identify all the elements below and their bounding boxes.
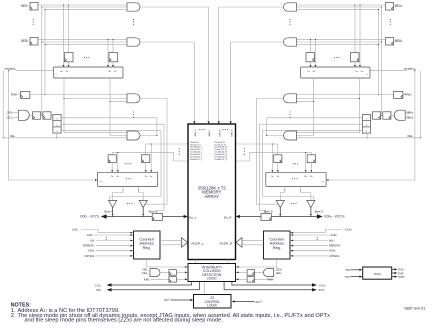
svg-text:CNTENR: CNTENR <box>329 254 340 258</box>
svg-text:CE0L: CE0L <box>142 268 148 271</box>
svg-text:a: a <box>300 189 302 191</box>
svg-text:an: an <box>322 181 324 183</box>
svg-text:CE0R: CE0R <box>276 268 283 271</box>
svg-text:A0R: A0R <box>329 239 334 243</box>
svg-text:CE1R: CE1R <box>407 116 414 120</box>
svg-text:CE1L: CE1L <box>142 272 148 275</box>
svg-text:Reg.: Reg. <box>143 245 151 250</box>
svg-text:CE1R: CE1R <box>276 272 283 275</box>
svg-text:REPEATR: REPEATR <box>329 244 342 248</box>
svg-text:TMS: TMS <box>398 271 404 275</box>
svg-text:DIN_R: DIN_R <box>224 216 232 220</box>
svg-text:ADDR_R: ADDR_R <box>219 242 232 246</box>
svg-text:A0L: A0L <box>90 239 95 243</box>
svg-text:BE0R: BE0R <box>395 4 403 8</box>
svg-text:CE1L: CE1L <box>7 116 13 120</box>
svg-text:I/O0R - I/O71R: I/O0R - I/O71R <box>324 215 345 219</box>
svg-text:INTL: INTL <box>96 288 102 292</box>
svg-text:TRST: TRST <box>398 275 405 279</box>
svg-text:OER: OER <box>407 134 413 138</box>
svg-text:Dout63-71_R: Dout63-71_R <box>215 158 228 161</box>
svg-text:6887 drw 01: 6887 drw 01 <box>405 306 426 310</box>
svg-text:LOGIC: LOGIC <box>207 276 218 280</box>
svg-text:BW0_R: BW0_R <box>219 129 221 136</box>
svg-text:b: b <box>138 189 139 191</box>
svg-text:a: a <box>122 189 124 191</box>
svg-text:BW8_R: BW8_R <box>231 129 233 136</box>
svg-text:ADSR: ADSR <box>329 249 337 253</box>
svg-text:ZZL(2): ZZL(2) <box>164 298 171 302</box>
svg-text:Dout63-71_L: Dout63-71_L <box>190 158 203 161</box>
svg-text:CLKR: CLKR <box>345 228 352 232</box>
svg-text:CNTENL: CNTENL <box>84 254 95 258</box>
svg-text:A16R: A16R <box>331 233 338 237</box>
svg-text:BE8L: BE8L <box>21 39 29 43</box>
svg-text:Reg.: Reg. <box>273 245 281 250</box>
svg-text:OEL: OEL <box>10 134 15 138</box>
svg-text:INTR: INTR <box>319 288 326 292</box>
svg-text:A16L: A16L <box>87 233 94 237</box>
svg-text:R/WR: R/WR <box>405 93 413 97</box>
svg-text:R/WR: R/WR <box>268 278 275 281</box>
svg-text:DIN_L: DIN_L <box>189 216 197 220</box>
svg-text:JTAG: JTAG <box>373 272 381 276</box>
svg-text:an: an <box>100 181 102 183</box>
svg-text:ADDR_L: ADDR_L <box>191 242 203 246</box>
svg-text:R/WL: R/WL <box>11 93 19 97</box>
svg-text:BW0_L: BW0_L <box>195 129 197 136</box>
svg-text:I/O0L - I/O71L: I/O0L - I/O71L <box>80 215 100 219</box>
svg-text:LOGIC: LOGIC <box>207 304 218 308</box>
svg-text:and the sleep mode pins themse: and the sleep mode pins themselves (ZZx)… <box>24 318 223 324</box>
svg-text:BE0L: BE0L <box>21 4 29 8</box>
svg-text:TDO: TDO <box>398 268 404 272</box>
svg-text:Byte 0: Byte 0 <box>104 209 113 213</box>
svg-text:Byte 8: Byte 8 <box>149 209 158 213</box>
svg-text:TCK: TCK <box>344 275 350 279</box>
svg-text:ARRAY: ARRAY <box>205 194 220 199</box>
svg-text:Byte 8: Byte 8 <box>264 209 273 213</box>
svg-text:COLL: COLL <box>95 283 102 287</box>
svg-text:TDI: TDI <box>345 268 350 272</box>
svg-text:REPEATL: REPEATL <box>83 244 96 248</box>
svg-text:PT/PPCL: PT/PPCL <box>5 67 17 71</box>
svg-text:2.: 2. <box>11 313 16 319</box>
svg-text:CLKL: CLKL <box>72 228 79 232</box>
svg-text:ADSL: ADSL <box>88 249 96 253</box>
svg-text:BE8R: BE8R <box>395 39 403 43</box>
svg-text:CE0L: CE0L <box>7 111 13 115</box>
svg-text:PT/PPCR: PT/PPCR <box>404 67 416 71</box>
svg-text:CE0R: CE0R <box>407 111 414 115</box>
svg-text:Byte 0: Byte 0 <box>315 209 324 213</box>
svg-text:R/WL: R/WL <box>144 278 150 281</box>
svg-text:ZZR(2): ZZR(2) <box>255 300 262 304</box>
svg-text:COLR: COLR <box>319 283 327 287</box>
svg-text:b: b <box>284 189 285 191</box>
svg-text:BW8_L: BW8_L <box>209 129 211 136</box>
